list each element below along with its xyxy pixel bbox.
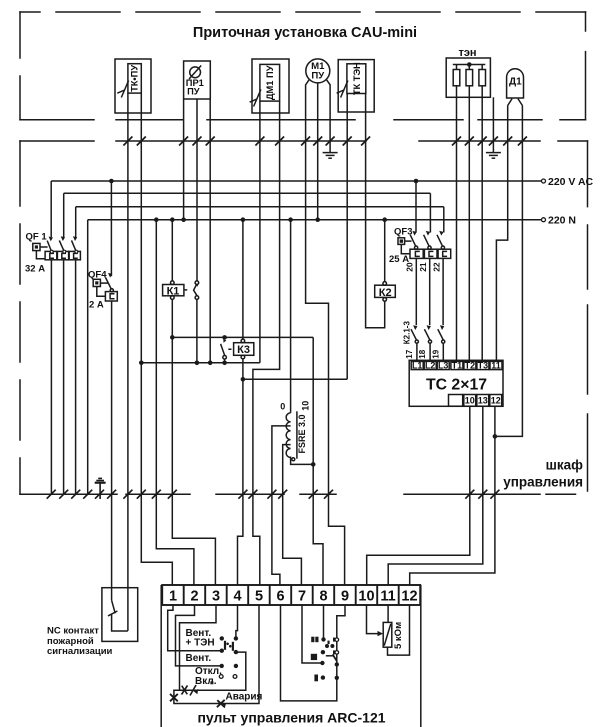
svg-text:19: 19 xyxy=(432,349,441,358)
svg-text:11: 11 xyxy=(380,589,395,605)
wire D1 right to node on wire 12 xyxy=(495,106,523,437)
svg-text:T3: T3 xyxy=(478,360,489,370)
wire TK TEN left down to K3 node xyxy=(346,94,348,380)
svg-text:Приточная установка CAU-mini: Приточная установка CAU-mini xyxy=(193,25,417,41)
svg-text:К3: К3 xyxy=(237,344,250,356)
svg-text:Д1: Д1 xyxy=(509,76,522,87)
svg-text:2 А: 2 А xyxy=(89,300,104,311)
potentiometer 5 kOm xyxy=(367,605,410,655)
svg-text:QF4: QF4 xyxy=(88,270,107,281)
svg-text:1: 1 xyxy=(169,589,177,605)
svg-text:QF3: QF3 xyxy=(394,227,412,238)
TK PU switch blade xyxy=(121,81,128,98)
svg-text:Авария: Авария xyxy=(226,692,263,703)
svg-text:T1: T1 xyxy=(452,360,463,370)
svg-text:управления: управления xyxy=(503,475,583,490)
TEN element 2 xyxy=(466,70,473,86)
relay coil K3 xyxy=(228,220,254,585)
panel wiring: fan speed switch xyxy=(281,605,346,701)
QF1 pole 3 riser xyxy=(75,207,77,237)
TEN element 3 xyxy=(479,70,486,86)
wire TEN element 3 to T3 xyxy=(481,86,483,362)
svg-text:0: 0 xyxy=(280,402,285,412)
svg-text:+ ТЭН: + ТЭН xyxy=(186,638,215,649)
bus 220V AC xyxy=(51,180,541,182)
svg-text:4: 4 xyxy=(233,589,241,605)
svg-text:ПУ: ПУ xyxy=(311,71,325,82)
dashed enclosure: приточная установка CAU-mini xyxy=(20,12,586,120)
svg-text:L3: L3 xyxy=(438,360,449,370)
svg-text:13: 13 xyxy=(478,396,488,406)
circuit breaker QF4 xyxy=(93,181,117,588)
wire TC 10 to terminal 10 xyxy=(367,406,470,585)
N riser to boundary xyxy=(87,220,89,495)
wire M1 right to ground xyxy=(326,79,330,152)
svg-text:10: 10 xyxy=(465,396,475,406)
wire TK PU left down to NC contact xyxy=(127,93,129,631)
svg-text:ПУ: ПУ xyxy=(187,87,200,97)
svg-text:7: 7 xyxy=(298,589,306,605)
relay coil K1 xyxy=(163,220,216,585)
TEN element 1 xyxy=(453,70,460,86)
bus line L3 xyxy=(76,206,444,208)
fan speed contacts xyxy=(311,637,339,682)
relay coil K2 xyxy=(375,220,396,302)
svg-text:220 N: 220 N xyxy=(548,215,576,227)
wire PR1 left down to N bus xyxy=(183,99,185,220)
on/off contact symbols xyxy=(182,685,197,696)
contact K1 xyxy=(194,281,199,363)
svg-text:5 кОм: 5 кОм xyxy=(393,622,404,649)
PR1 sensor symbol xyxy=(190,67,201,78)
svg-text:ДМ1 ПУ: ДМ1 ПУ xyxy=(265,65,275,100)
ground symbol under TEN xyxy=(486,153,501,159)
svg-text:11: 11 xyxy=(491,360,501,370)
QF1 pole 1 out down xyxy=(50,260,52,494)
svg-text:L2: L2 xyxy=(425,360,436,370)
svg-text:18: 18 xyxy=(418,349,427,358)
motor M1 PU xyxy=(306,59,330,83)
cable slashes at boundary y141 xyxy=(123,137,527,146)
node row 379.3 K3 to TK TEN xyxy=(243,378,347,380)
svg-text:10: 10 xyxy=(300,401,310,411)
node row 337.4 xyxy=(172,336,313,338)
DM1 switch blade xyxy=(254,90,261,107)
component labels xyxy=(130,47,522,100)
svg-text:К2: К2 xyxy=(379,287,392,299)
svg-text:9: 9 xyxy=(341,589,349,605)
wire TK PU right down, jog to terminal 1 xyxy=(141,93,172,585)
wire PR1 right down to node row 362.8 xyxy=(209,99,211,363)
svg-text:3: 3 xyxy=(212,589,220,605)
pressure switch PR1 PU box xyxy=(184,61,211,99)
svg-text:21: 21 xyxy=(418,262,428,272)
PE arrow at boundary xyxy=(95,478,106,499)
wire D1 left to TC terminal 11 xyxy=(496,106,507,362)
svg-text:К1: К1 xyxy=(167,285,180,297)
svg-text:пульт управления ARC-121: пульт управления ARC-121 xyxy=(197,710,385,726)
svg-text:17: 17 xyxy=(405,349,414,358)
wire TC 13 to terminal 11 xyxy=(388,406,483,585)
svg-text:6: 6 xyxy=(276,589,284,605)
svg-text:NC контакт: NC контакт xyxy=(47,626,99,637)
wire node337 to terminal 8 xyxy=(313,337,323,585)
wire TEN element 2 to T2 xyxy=(468,86,470,362)
svg-text:10: 10 xyxy=(358,589,374,605)
svg-text:Вкл.: Вкл. xyxy=(195,676,217,687)
svg-text:12: 12 xyxy=(401,589,417,605)
wire TC 12 to terminal 12 xyxy=(410,406,495,585)
node row 362.8 xyxy=(141,362,260,364)
wire TEN element 1 to T1 xyxy=(456,86,458,362)
autotransformer FSRE 3.0 xyxy=(272,220,313,585)
transformer TC 2x17 xyxy=(409,360,503,406)
svg-text:тэн: тэн xyxy=(458,47,476,59)
svg-text:T2: T2 xyxy=(465,360,476,370)
svg-text:FSRE 3.0: FSRE 3.0 xyxy=(297,414,307,453)
svg-text:L1: L1 xyxy=(412,360,423,370)
wire TK TEN right down to K2 coil xyxy=(366,94,385,328)
wire PR1 middle down to K1 contact xyxy=(196,99,198,281)
sensor D1 xyxy=(507,69,524,98)
svg-text:ТС 2×17: ТС 2×17 xyxy=(426,376,487,393)
svg-text:220 V AC: 220 V AC xyxy=(548,176,594,188)
wire DM1 left down to node row 362.8 xyxy=(259,101,261,363)
svg-text:22: 22 xyxy=(431,262,441,272)
wire TEN PE to ground xyxy=(492,97,494,152)
contact K3 xyxy=(221,344,227,363)
svg-text:20: 20 xyxy=(405,262,415,272)
circuit breaker QF1 xyxy=(33,240,81,259)
contactor contacts K2.1-3 xyxy=(411,329,445,361)
svg-text:ТК ТЭН: ТК ТЭН xyxy=(352,62,362,95)
svg-text:32 А: 32 А xyxy=(25,264,45,275)
TK TEN switch blade xyxy=(341,81,348,98)
wire M1 left down jog to terminal 9 xyxy=(306,79,345,585)
wire DM1 right down jog to terminal 5 xyxy=(253,101,280,585)
ground symbol under M1 xyxy=(323,153,338,159)
cable slashes at boundary y494 xyxy=(47,490,500,499)
svg-text:Вент.: Вент. xyxy=(186,653,212,664)
mode switch contacts xyxy=(210,636,238,684)
svg-text:2: 2 xyxy=(190,589,198,605)
svg-text:QF 1: QF 1 xyxy=(26,232,48,243)
QF1 pole 2 out down xyxy=(63,260,65,494)
circuit breaker QF3 xyxy=(398,181,451,325)
QF1 pole 3 out down xyxy=(75,260,77,494)
svg-text:8: 8 xyxy=(319,589,327,605)
heater TEN box xyxy=(446,58,490,97)
damper contact DM1 PU box xyxy=(252,59,289,113)
QF1 pole 1 riser xyxy=(50,181,52,237)
NC contact fire alarm box xyxy=(102,588,138,642)
QF1 pole 2 riser xyxy=(63,193,65,237)
svg-text:шкаф: шкаф xyxy=(546,458,584,473)
panel wiring: mode switch xyxy=(168,605,259,704)
wire 220N to terminal 2 xyxy=(156,220,194,585)
thermal contact TK TEN box xyxy=(338,60,374,112)
thermal contact TK PU box xyxy=(115,59,151,113)
svg-text:ТК•ПУ: ТК•ПУ xyxy=(130,65,140,92)
terminal 220 V AC xyxy=(542,179,546,183)
terminal 220 N xyxy=(542,218,546,222)
dashed enclosure: шкаф управления xyxy=(20,141,588,494)
svg-text:5: 5 xyxy=(255,589,263,605)
control panel outline xyxy=(161,585,421,727)
terminal strip 1-12 xyxy=(162,585,420,605)
bus line L2 xyxy=(64,192,431,194)
svg-text:сигнализации: сигнализации xyxy=(47,646,113,657)
bus 220N xyxy=(88,219,542,221)
svg-text:12: 12 xyxy=(491,396,501,406)
wire M1 middle down to N bus xyxy=(317,83,319,220)
svg-text:К2.1-3: К2.1-3 xyxy=(402,321,411,345)
